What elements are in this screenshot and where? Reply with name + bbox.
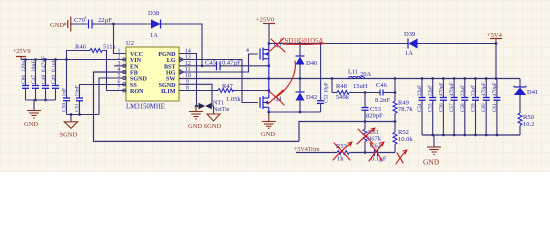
wire C45 to SW vertical [221,65,269,67]
svg-text:C70: C70 [74,17,85,24]
svg-text:1A: 1A [405,50,413,57]
svg-text:C58: C58 [460,103,466,112]
capacitor C51 15nF [75,85,127,115]
svg-text:470µF: 470µF [438,82,444,96]
junction R49 tap on output [394,77,397,80]
inductor L11 15uH [348,69,372,91]
svg-text:C47 10µF: C47 10µF [31,60,37,84]
diode D40 [296,44,318,79]
output capacitor bank junctions [421,77,488,80]
svg-text:7: 7 [118,86,121,92]
svg-text:D39: D39 [404,31,415,38]
svg-text:C60: C60 [481,103,487,112]
wire C70 to D38 with VCC tap [93,23,152,25]
ground GND earth below input caps [27,111,41,119]
pin names left column [130,52,148,95]
resistor R51 967k (DNP) [363,122,382,153]
resistor R52 10.0k [393,122,413,153]
junction BST [201,64,204,67]
wire divider mid line [299,122,395,142]
svg-text:470µF: 470µF [481,82,487,96]
annotation red X over C62 [369,142,384,161]
svg-text:549k: 549k [336,94,350,101]
junction C46 to R49 column [394,91,397,94]
svg-text:C46: C46 [376,82,388,89]
resistor R48 549k [332,83,380,101]
schematic sheet background [0,0,550,172]
wire LG to Q4 gate [179,60,258,103]
svg-text:1k: 1k [337,156,344,163]
wire to GND symbol [33,100,35,110]
ground SGND triangle left [64,122,77,129]
svg-text:C61: C61 [492,103,498,112]
wire to SGND symbol [70,115,72,122]
svg-text:10.0k: 10.0k [398,136,413,143]
svg-text:D38: D38 [148,10,159,17]
svg-text:+25V0: +25V0 [13,48,31,55]
svg-text:22µF: 22µF [460,85,466,96]
junction bottom rail dots [431,134,498,137]
junction R48 tap on SW [331,77,334,80]
svg-text:20A: 20A [360,71,372,78]
transistor Q3 CSD18501Q5A [260,43,281,79]
wire SW main line [179,78,520,80]
svg-text:4: 4 [246,48,249,54]
svg-text:GND: GND [50,22,64,29]
svg-text:10.2: 10.2 [523,121,534,128]
svg-text:1nF: 1nF [62,88,68,97]
svg-text:R47: R47 [222,83,234,90]
svg-text:D41: D41 [527,89,538,96]
resistor R49 78.7k [393,100,413,122]
pin numbers right [185,49,191,92]
capacitor C46 8.2nF [375,82,395,104]
wire SGND pin5 drop [99,78,126,115]
svg-text:GND: GND [188,123,202,130]
wire D39 to +5V4 [418,43,497,45]
wire GND to C70 [71,23,88,25]
svg-text:+25V0: +25V0 [256,17,274,24]
wire output bank bottom rail [422,134,520,136]
svg-text:ILIM: ILIM [161,89,176,95]
diode D41 zener [514,86,539,113]
capacitor C57 470uF [449,79,458,136]
svg-text:C59: C59 [471,103,477,112]
svg-text:D42: D42 [306,94,317,101]
svg-text:GND: GND [261,131,275,138]
junction mid line [364,120,367,123]
capacitor C50 1nF [62,60,71,115]
junction C53 tap [364,91,367,94]
svg-text:SGND: SGND [130,77,148,83]
annotation red X over R53 [333,142,352,160]
svg-text:2: 2 [118,55,121,61]
junction net-tie node [195,105,198,108]
capacitor C52 10pF column [317,44,330,113]
svg-text:C54: C54 [417,103,423,112]
capacitor C47 10uF [31,60,39,101]
svg-text:SGND: SGND [60,132,78,139]
diode D38 [148,10,161,39]
capacitor C56 470uF [438,79,447,136]
wire SGND pin9 to net-tie right [179,84,212,106]
svg-text:LG: LG [167,58,176,64]
ground GND power port top-left [65,17,71,32]
junction SGND rail [70,113,73,116]
svg-text:511k: 511k [103,44,117,51]
svg-text:D40: D40 [306,60,317,67]
svg-text:4: 4 [118,67,121,73]
svg-text:1A: 1A [150,32,158,39]
resistor R47 1.05k [218,89,234,93]
svg-text:22µF: 22µF [428,85,434,96]
svg-text:470µF: 470µF [449,82,455,96]
junction drain node [268,42,271,45]
svg-text:C45: C45 [205,60,216,67]
annotation red X over Q3 [270,38,324,52]
svg-text:R52: R52 [398,129,409,136]
transistor Q4 CSD18501Q5A [260,79,281,115]
ground GND earth under chip [189,106,203,119]
svg-text:78.7k: 78.7k [398,106,413,113]
wire +25V rail to D39 [269,43,408,45]
resistor R50 10.2 [518,113,534,135]
svg-text:C55: C55 [428,103,434,112]
capacitor C53 820pF [362,93,384,122]
svg-text:C48 0.47µF: C48 0.47µF [41,56,47,84]
svg-text:820pF: 820pF [366,113,383,120]
pin names right column [158,52,176,95]
wire PGND to net-tie drop [179,54,197,107]
wire HG to Q3 gate [179,54,258,72]
power port +5V4 [487,32,503,44]
svg-text:C56: C56 [438,103,444,112]
junction Q4 source node [267,111,270,114]
capacitor C70 22uF polarized [89,20,93,29]
annotation red X over R51 [357,128,375,144]
junction trim/R51 [364,151,367,154]
capacitor C58 22uF [460,79,469,136]
capacitor C54 22uF [417,79,426,136]
svg-text:RON: RON [130,89,144,95]
ground GND earth under cap bank [427,147,441,155]
wire to GND under bank [433,135,435,147]
svg-text:R48: R48 [336,83,347,90]
wire input caps bottom rail [26,99,56,101]
power port +25V0 above Q3 [256,17,275,44]
wire FB drop to feedback run [94,72,300,141]
svg-text:LM3150MHE: LM3150MHE [126,104,165,111]
wire VCC riser [114,24,127,54]
capacitor C55 22uF [428,79,437,136]
wire trim line [296,152,337,154]
svg-text:C49 0.1µF: C49 0.1µF [51,59,57,84]
capacitor C48 0.47uF [41,56,49,100]
svg-text:SGND: SGND [204,123,222,130]
junction input caps [24,58,68,61]
svg-text:HG: HG [166,71,176,77]
svg-text:NT1: NT1 [213,101,224,107]
capacitor C60 470uF [481,79,490,136]
resistor R53 1k (DNP) [336,143,374,163]
junction D40 SW [299,77,302,80]
op-amp U2 LM3150MHE chip body [126,40,179,111]
pin numbers left [118,49,121,92]
ground GND bars under Q4 [262,114,276,128]
svg-text:R50: R50 [523,114,534,121]
diode D39 [404,31,418,57]
capacitor C86 120uF [21,58,29,100]
junction VCC tap [112,23,115,26]
wire net-tie right leg to SGND [212,106,214,114]
wire R48/C46 branch [331,79,333,93]
wire Q4 source to C52 bottom [269,111,321,113]
svg-text:BST: BST [164,64,176,70]
wire BST row with C45 [179,65,216,67]
wire ILIM row with R47 [179,83,270,103]
svg-text:C86 120µF: C86 120µF [21,58,27,84]
svg-text:R46: R46 [75,44,87,51]
net tie NT1 [199,101,230,114]
svg-text:470µF: 470µF [492,82,498,96]
capacitor C45 0.47uF [205,60,241,71]
annotation red X over Q4 with swoosh [268,61,296,105]
svg-text:8.2nF: 8.2nF [375,97,390,104]
wire D38 to BST drop [161,24,203,66]
svg-text:C50: C50 [62,103,68,112]
wire +5V4 column down to output rail [495,44,497,79]
wire SGND bottom rail [67,114,100,116]
ground SGND triangle under chip [207,114,220,121]
svg-text:1.05k: 1.05k [226,96,241,103]
svg-text:22µF: 22µF [471,85,477,96]
svg-text:EN: EN [130,64,139,70]
capacitor C62 0.1uF (DNP) [370,143,395,163]
svg-text:C51: C51 [75,103,81,112]
annotation red mark at trim end [396,150,407,164]
wire +25V0 rail to VIN [21,59,126,61]
junction Q3 source / SW [267,77,270,80]
diode D42 [296,79,318,113]
svg-text:L11: L11 [348,69,358,76]
svg-text:22µF: 22µF [98,17,112,24]
pin stubs left short (EN) [114,65,126,67]
resistor R46 511k [67,44,127,91]
svg-text:22µF: 22µF [417,85,423,96]
pin decorations: output arrows right pins 13 and 11 [180,57,184,74]
wire output corner to D41 [519,79,521,88]
svg-text:15uH: 15uH [353,83,368,90]
pin decorations: input circles left pins 2-7 [123,58,126,92]
wire R49 column [394,79,396,102]
svg-text:FB: FB [130,71,138,77]
svg-text:15nF: 15nF [75,85,81,96]
svg-text:GND: GND [24,121,38,128]
capacitor C59 22uF [471,79,480,136]
svg-text:C52 10pF: C52 10pF [324,82,330,103]
svg-text:C57: C57 [449,103,455,112]
svg-text:SW: SW [166,77,175,83]
svg-text:NetTie: NetTie [213,107,230,113]
power port +25V0 left [13,48,31,60]
svg-text:U2: U2 [126,40,134,47]
svg-text:VIN: VIN [130,58,142,64]
junction bottom rail [34,99,37,102]
svg-text:GND: GND [423,158,440,167]
capacitor C61 470uF [492,79,501,136]
wire net-tie left leg [195,105,199,107]
capacitor C49 0.1uF [51,59,59,100]
svg-text:5: 5 [118,73,121,79]
